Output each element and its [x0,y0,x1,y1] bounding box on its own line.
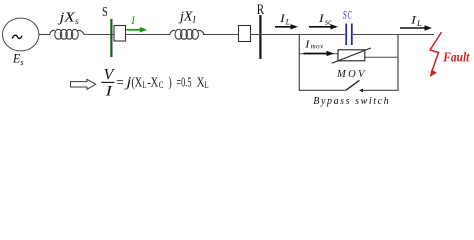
label jXl [178,10,196,27]
svg-text:S: S [102,5,108,20]
bypass switch contact mark [359,89,363,93]
junction right vertical [397,34,399,90]
label Isc [318,13,332,27]
svg-text:V: V [104,66,115,83]
wire capacitor to fault [353,34,434,36]
svg-text:I: I [104,84,113,100]
MOV branch wire left [299,53,338,55]
label Imov [304,39,324,50]
junction left vertical [298,34,300,90]
inductor jXl [170,29,205,39]
svg-text:(X: (X [131,75,142,90]
wire coil2 to box2 [203,34,239,36]
svg-text:L: L [416,18,422,28]
svg-text:Fault: Fault [442,50,470,65]
MOV branch wire right [365,56,398,58]
varistor MOV box [338,50,365,61]
svg-text:=: = [116,75,123,90]
svg-text:Bypass switch: Bypass switch [313,96,388,107]
svg-text:L: L [142,81,146,91]
svg-text:X: X [197,75,205,90]
source tilde [12,35,22,38]
wire from source to coil1 [39,34,50,36]
arrow Imov [304,53,329,55]
breaker bar S (dark green) [110,19,112,57]
bypass switch branch left wire [299,89,346,91]
svg-text:-X: -X [147,75,158,90]
svg-text:jX: jX [178,10,193,25]
label SC (blue) [343,10,352,22]
svg-text:=0.5: =0.5 [177,75,192,90]
wire coil1 to breaker S [84,34,114,36]
svg-text:I: I [304,39,310,50]
arrow IL right [400,27,426,29]
source Es circle [3,18,39,51]
svg-text:jX: jX [57,11,75,26]
measurement box 2 [239,26,251,42]
wire box1 to coil2 [126,34,171,36]
varistor diagonal [332,48,371,63]
svg-text:L: L [205,81,209,91]
svg-text:mov: mov [311,42,324,50]
fault lightning bolt (red) [430,32,442,71]
bypass switch blade [346,80,360,90]
label IL right [410,13,422,29]
label Es [12,52,24,67]
svg-text:MOV: MOV [336,69,366,80]
inductor jXs [50,29,85,39]
svg-text:): ) [169,75,172,90]
wire R bar to capacitor [251,34,345,36]
label jXs [57,11,79,27]
svg-text:s: s [75,17,79,27]
svg-text:C: C [159,81,164,91]
bypass switch branch right wire [363,89,399,91]
arrow IL left [275,26,292,28]
formula block arrow [71,79,96,89]
series capacitor SC (blue bars) [345,24,347,46]
current arrow I (green) [127,29,142,31]
label IL left [279,13,291,27]
measurement box 1 [114,26,126,42]
svg-text:l: l [193,15,196,26]
svg-text:C: C [348,10,352,22]
arrow Isc [309,26,332,28]
svg-text:L: L [285,17,291,26]
svg-text:S: S [343,10,347,22]
relay bar R (black) [259,15,261,59]
